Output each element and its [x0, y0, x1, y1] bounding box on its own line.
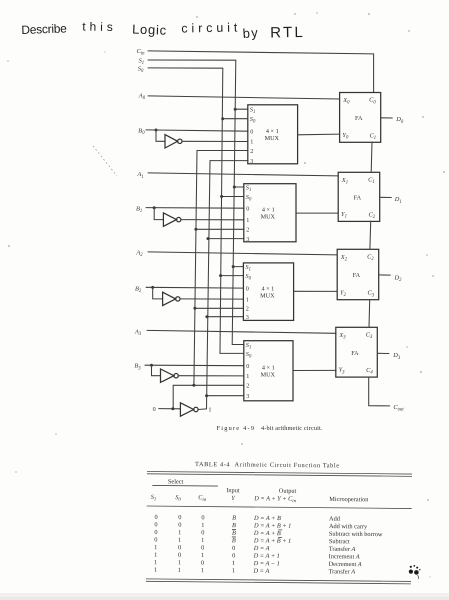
svg-text:0: 0 [232, 552, 235, 559]
wire logic-0 stub stage 2 [195, 307, 244, 309]
wire logic-0 stub stage 0 [197, 150, 248, 152]
handwritten note: Describe this Logic circuit by RTL [21, 20, 303, 42]
wire B2-bar output [180, 298, 243, 300]
wire B1 branch to inverter [154, 208, 163, 220]
junction S1 stage 2 [232, 265, 235, 268]
svg-text:4-bit arithmetic circuit.: 4-bit arithmetic circuit. [261, 425, 323, 432]
wire A3 [147, 330, 336, 333]
wire logic-0 stub stage 1 [196, 228, 244, 230]
svg-text:0: 0 [246, 363, 249, 370]
svg-text:2: 2 [250, 148, 253, 155]
svg-text:MUX: MUX [265, 135, 280, 142]
inverter B1 [163, 213, 181, 226]
svg-text:1: 1 [250, 139, 253, 146]
junction B0 [155, 129, 158, 132]
full adder FA U6 [338, 172, 380, 221]
svg-text:Add with carry: Add with carry [329, 523, 368, 530]
svg-text:D2: D2 [394, 274, 403, 283]
svg-text:S0: S0 [246, 194, 252, 203]
svg-text:0: 0 [201, 514, 204, 521]
4x1 MUX U3 [243, 263, 293, 321]
svg-text:Increment A: Increment A [329, 553, 360, 560]
svg-text:B: B [232, 530, 236, 537]
svg-text:0: 0 [153, 406, 156, 413]
wire D0 output [381, 117, 392, 119]
svg-text:0: 0 [201, 560, 204, 567]
svg-text:S0: S0 [246, 351, 252, 360]
net A0 label [138, 92, 146, 101]
svg-text:circuit: circuit [181, 21, 238, 36]
4x1 MUX U2 [244, 184, 296, 243]
svg-text:D = A + B: D = A + B [253, 515, 281, 522]
net D1 label [394, 196, 402, 205]
svg-text:0: 0 [246, 286, 249, 293]
svg-text:1: 1 [246, 217, 249, 224]
wire S1 stub stage 2 [233, 266, 243, 268]
svg-text:1: 1 [201, 537, 204, 544]
svg-text:3: 3 [246, 314, 249, 321]
junction 0-source [171, 407, 174, 410]
svg-text:1: 1 [232, 567, 235, 574]
wire S1 stub stage 0 [235, 108, 248, 110]
table row 4 [154, 536, 350, 545]
svg-text:D = A: D = A [253, 568, 270, 575]
net S1 label [139, 58, 145, 67]
net logic-1 vertical line [207, 161, 211, 409]
table row 2 [154, 521, 368, 530]
svg-text:B2: B2 [135, 285, 142, 294]
svg-text:D = A + Y + Cin: D = A + Y + Cin [253, 495, 296, 504]
net A1 label [136, 171, 143, 180]
wire A2 [148, 252, 337, 255]
junction S0 stage 1 [220, 195, 223, 198]
node constant 0 source [153, 406, 156, 413]
wire logic-1 stub stage 2 [207, 316, 244, 318]
table 4-4 [146, 461, 412, 584]
wire D1 output [380, 196, 391, 198]
net D2 label [394, 274, 403, 283]
svg-text:D0: D0 [395, 116, 404, 125]
svg-text:Microoperation: Microoperation [329, 496, 369, 503]
svg-text:Y0: Y0 [342, 132, 349, 141]
svg-text:0: 0 [232, 545, 235, 552]
svg-text:FA: FA [353, 272, 361, 279]
svg-text:D1: D1 [394, 196, 402, 205]
svg-text:C2: C2 [367, 254, 374, 263]
net Cin label [137, 48, 146, 57]
junction S1 stage 0 [234, 108, 237, 111]
wire B2 branch to inverter [153, 287, 163, 299]
svg-text:2: 2 [246, 383, 249, 390]
svg-text:B3: B3 [134, 363, 141, 372]
inverter B0 [165, 135, 182, 148]
svg-text:Input: Input [226, 487, 240, 494]
svg-text:D = A + B: D = A + B [253, 530, 281, 537]
svg-text:S1: S1 [151, 494, 157, 503]
svg-text:Y1: Y1 [341, 211, 347, 220]
svg-text:TABLE 4-4 Arithmetic Circuit: TABLE 4-4 Arithmetic Circuit Function Ta… [195, 461, 339, 469]
wire MUX U2 output Y1 [296, 212, 338, 214]
svg-text:D = A + B + 1: D = A + B + 1 [253, 522, 291, 529]
wire A1 [148, 173, 338, 176]
wire carry C3 link [368, 300, 371, 328]
net D3 label [392, 352, 401, 361]
table row 5 [154, 544, 355, 553]
wire D2 output [379, 274, 390, 276]
wire B3 branch to inverter [152, 365, 161, 376]
svg-text:0: 0 [250, 129, 253, 136]
inverter B3 [161, 369, 179, 382]
junction logic-0 stage 1 [194, 228, 197, 231]
svg-text:Y: Y [231, 495, 236, 502]
figure caption [217, 425, 323, 432]
svg-text:Transfer A: Transfer A [329, 546, 356, 553]
svg-text:0: 0 [154, 514, 157, 521]
svg-text:1: 1 [154, 567, 157, 574]
svg-text:1: 1 [201, 522, 204, 529]
svg-text:3: 3 [250, 158, 253, 165]
svg-text:1: 1 [178, 567, 181, 574]
table row 3 [154, 529, 383, 538]
svg-text:Add: Add [329, 516, 341, 523]
node constant 1 label [208, 406, 211, 413]
svg-text:Y3: Y3 [339, 367, 346, 376]
svg-text:MUX: MUX [260, 292, 275, 299]
wire B1 [146, 207, 244, 210]
svg-text:4 × 1: 4 × 1 [262, 285, 275, 292]
wire logic-0 stub stage 3 [173, 385, 244, 408]
svg-text:Select: Select [168, 478, 184, 485]
svg-text:C3: C3 [368, 290, 375, 299]
svg-text:C3: C3 [366, 332, 373, 341]
svg-text:0: 0 [246, 206, 249, 213]
svg-text:A1: A1 [136, 171, 143, 180]
full adder FA U8 [336, 327, 378, 377]
junction logic-1 stage 1 [207, 237, 210, 240]
svg-text:4 × 1: 4 × 1 [262, 365, 275, 372]
svg-text:Subtract with borrow: Subtract with borrow [329, 531, 383, 539]
net A2 label [135, 250, 143, 259]
svg-text:4 × 1: 4 × 1 [266, 128, 279, 135]
wire MUX U1 output Y0 [298, 133, 340, 136]
wire MUX U4 output Y3 [293, 369, 336, 371]
svg-text:D = A: D = A [253, 545, 270, 552]
table row 8 [154, 567, 355, 576]
svg-text:Figure 4-9: Figure 4-9 [217, 425, 255, 432]
svg-text:by: by [242, 25, 259, 41]
svg-text:1: 1 [246, 296, 249, 303]
wire S0 stub stage 2 [221, 275, 244, 277]
net B2 label [135, 285, 142, 294]
svg-text:B: B [232, 522, 236, 529]
wire A0 [148, 96, 340, 99]
svg-text:1: 1 [232, 560, 235, 567]
svg-text:1: 1 [178, 537, 181, 544]
table row 7 [154, 559, 362, 568]
svg-text:D = A − 1: D = A − 1 [253, 560, 280, 567]
svg-text:1: 1 [201, 552, 204, 559]
wire logic-1 stub stage 0 [210, 160, 248, 162]
svg-text:D3: D3 [392, 352, 401, 361]
wire S0 bus [148, 68, 244, 354]
wire B0 [146, 130, 248, 131]
svg-text:1: 1 [178, 529, 181, 536]
wire B0 branch to inverter [156, 130, 165, 141]
wire Cout [369, 377, 390, 406]
wire B1-bar output [181, 219, 244, 221]
svg-text:S1: S1 [246, 184, 252, 193]
svg-text:Logic: Logic [132, 22, 167, 38]
svg-text:C2: C2 [369, 211, 376, 220]
svg-text:1: 1 [154, 552, 157, 559]
svg-text:0: 0 [154, 536, 157, 543]
svg-text:1: 1 [154, 544, 157, 551]
wire D3 output [378, 352, 389, 354]
svg-text:MUX: MUX [261, 372, 276, 379]
net B1 label [136, 205, 142, 214]
wire logic-1 stub stage 3 [207, 395, 244, 397]
wire B3-bar output [178, 375, 244, 377]
junction B2 [151, 286, 154, 289]
svg-text:Subtract: Subtract [329, 538, 350, 545]
svg-text:FA: FA [351, 350, 359, 357]
svg-text:0: 0 [178, 544, 181, 551]
ink blot mark [409, 565, 421, 579]
wire S0 stub stage 1 [222, 196, 244, 198]
svg-text:3: 3 [246, 393, 249, 400]
svg-text:Cin: Cin [198, 494, 207, 503]
inverter B2 [163, 292, 180, 305]
svg-text:0: 0 [178, 522, 181, 529]
svg-text:Output: Output [279, 488, 297, 495]
svg-text:2: 2 [246, 306, 249, 313]
junction logic-1 stage 2 [205, 315, 208, 318]
svg-text:S1: S1 [246, 342, 252, 351]
junction logic-1 stage 3 [205, 394, 208, 397]
svg-text:1: 1 [154, 559, 157, 566]
wire 0-source [159, 408, 181, 410]
wire B0-bar output [182, 140, 248, 142]
full adder FA U5 [340, 93, 381, 143]
svg-text:C1: C1 [370, 132, 377, 141]
svg-text:S0: S0 [245, 273, 251, 282]
net S0 label [138, 66, 144, 75]
svg-text:2: 2 [246, 227, 249, 234]
svg-text:B: B [232, 515, 236, 522]
svg-text:S0: S0 [138, 66, 144, 75]
svg-text:B: B [232, 537, 236, 544]
junction S0 stage 2 [219, 274, 222, 277]
svg-text:A3: A3 [134, 329, 142, 338]
net A3 label [134, 329, 142, 338]
wire carry C1 link [370, 142, 373, 172]
wire S0 stub stage 0 [223, 118, 248, 120]
net Cout label [393, 404, 404, 413]
svg-text:B0: B0 [138, 127, 145, 136]
svg-text:0: 0 [178, 514, 181, 521]
svg-text:0: 0 [178, 552, 181, 559]
svg-text:X2: X2 [340, 254, 348, 263]
full adder FA U7 [337, 249, 379, 299]
svg-text:B1: B1 [136, 205, 142, 214]
svg-text:RTL: RTL [270, 24, 303, 42]
wire 1-source [198, 408, 206, 411]
svg-text:D = A + 1: D = A + 1 [253, 553, 280, 560]
svg-text:FA: FA [355, 115, 363, 122]
svg-text:Cout: Cout [393, 404, 404, 413]
stray pen scratch [93, 146, 117, 176]
svg-text:4 × 1: 4 × 1 [262, 207, 275, 214]
net D0 label [395, 116, 404, 125]
junction B1 [153, 206, 156, 209]
svg-text:3: 3 [246, 236, 249, 243]
svg-text:S1: S1 [250, 107, 256, 116]
svg-text:FA: FA [354, 195, 362, 202]
table row 6 [154, 552, 360, 561]
net B3 label [134, 363, 141, 372]
wire S1 stub stage 1 [234, 186, 244, 188]
junction S1 stage 1 [233, 186, 236, 189]
svg-text:X0: X0 [342, 97, 350, 106]
4x1 MUX U1 [248, 105, 298, 165]
svg-text:1: 1 [178, 559, 181, 566]
svg-text:Decrement A: Decrement A [329, 561, 362, 568]
svg-text:0: 0 [154, 521, 157, 528]
svg-text:X1: X1 [341, 177, 348, 186]
svg-text:1: 1 [208, 406, 211, 413]
4x1 MUX U4 [244, 341, 293, 401]
junction S0 stage 0 [221, 117, 224, 120]
svg-text:A0: A0 [138, 92, 146, 101]
svg-text:Cin: Cin [137, 48, 146, 57]
svg-text:this: this [82, 20, 113, 35]
svg-text:S1: S1 [245, 264, 251, 273]
inverter bottom (0 to 1) [180, 403, 198, 416]
junction B3 [150, 364, 153, 367]
svg-text:C1: C1 [368, 177, 375, 186]
svg-text:D = A + B + 1: D = A + B + 1 [253, 537, 291, 544]
svg-text:A2: A2 [135, 250, 143, 259]
wire S1 bus [148, 60, 244, 345]
svg-text:0: 0 [201, 545, 204, 552]
wire B3 [145, 364, 244, 367]
svg-text:S0: S0 [175, 494, 181, 503]
svg-text:0: 0 [154, 529, 157, 536]
svg-text:X3: X3 [338, 332, 346, 341]
svg-text:Transfer A: Transfer A [329, 568, 356, 575]
svg-text:S0: S0 [250, 116, 256, 125]
net B0 label [138, 127, 145, 136]
wire Cin [148, 51, 374, 93]
wire carry C2 link [369, 221, 372, 249]
svg-text:1: 1 [201, 567, 204, 574]
svg-text:Y2: Y2 [340, 289, 347, 298]
svg-text:C4: C4 [366, 367, 373, 376]
wire MUX U3 output Y2 [294, 290, 338, 292]
junction logic-0 stage 3 [192, 384, 195, 387]
svg-text:0: 0 [201, 529, 204, 536]
wire B2 [146, 286, 243, 289]
svg-text:MUX: MUX [261, 214, 276, 221]
bottom scan edge band [0, 593, 449, 597]
svg-text:C0: C0 [369, 97, 376, 106]
net logic-0 vertical line [194, 151, 197, 386]
wire logic-1 stub stage 1 [208, 238, 244, 240]
junction logic-0 stage 2 [193, 307, 196, 310]
table row 1 [154, 514, 340, 523]
svg-text:1: 1 [246, 373, 249, 380]
svg-text:Describe: Describe [21, 21, 67, 37]
